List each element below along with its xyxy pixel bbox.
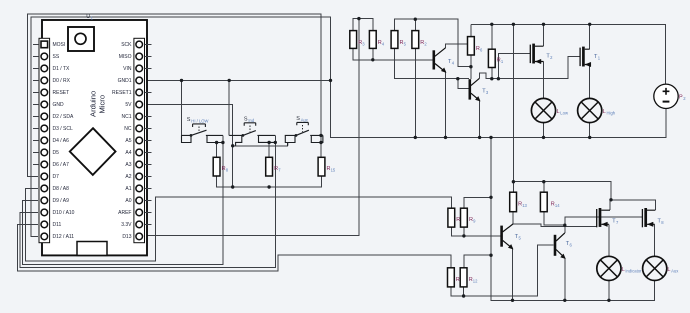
svg-text:GND: GND bbox=[53, 102, 65, 108]
wire switch common rail bbox=[233, 143, 288, 146]
wire supply riser to R13/R14 rail bbox=[513, 24, 611, 200]
crystal diamond bbox=[70, 128, 116, 175]
wire R11/R9 bottoms to T5 base bbox=[451, 227, 500, 236]
pin 1 square MOSI bbox=[41, 41, 48, 48]
svg-text:D13: D13 bbox=[122, 234, 131, 240]
wire T6 collector to T8 gate bbox=[565, 217, 643, 233]
wire L_Indicator bottom bbox=[608, 280, 610, 300]
svg-text:Arduino: Arduino bbox=[89, 91, 98, 117]
resistor R9 bbox=[461, 208, 468, 227]
resistor R12 bbox=[460, 268, 467, 287]
wire S_HI/LOW ground feed bbox=[181, 80, 183, 135]
svg-text:D1 / TX: D1 / TX bbox=[53, 66, 71, 72]
wire R5 top / R2 top to R6 bottom node bbox=[395, 19, 471, 66]
left pin circles bbox=[41, 53, 48, 240]
wire R2 bottom to GND bus bbox=[414, 48, 416, 137]
wire T3 base drop bbox=[458, 79, 469, 89]
transistor T8 P-MOSFET bbox=[642, 208, 655, 227]
wire T7 drain to T8 drain bbox=[610, 200, 655, 210]
wire T1 source to L_High bbox=[589, 65, 591, 99]
lamp L_Low bbox=[531, 98, 555, 122]
junction dot R4 bottom / T4 base rail bbox=[371, 58, 374, 61]
svg-text:A5: A5 bbox=[125, 138, 131, 144]
junction dots at switch terminals bbox=[190, 134, 193, 137]
svg-text:A2: A2 bbox=[125, 174, 131, 180]
svg-text:NC1: NC1 bbox=[121, 114, 131, 120]
resistor R2 bbox=[412, 31, 419, 49]
svg-text:D0 / RX: D0 / RX bbox=[53, 78, 71, 84]
resistor R4 bbox=[369, 31, 376, 49]
wire T2 source to L_Low bbox=[543, 62, 545, 99]
wire D9 to S_HI/LOW output (bundle line 2) bbox=[23, 135, 223, 264]
wire D8 to R11 top (bundle line 1) bbox=[26, 188, 452, 261]
svg-text:D10 / A10: D10 / A10 bbox=[53, 210, 75, 216]
svg-text:D4 / A6: D4 / A6 bbox=[53, 138, 70, 144]
wire D11 to R10 top (bundle line 4) bbox=[18, 224, 451, 271]
svg-text:D8 / A8: D8 / A8 bbox=[53, 186, 70, 192]
wire net D12/GND loop B with bottom bus and P2 negative lead bbox=[31, 17, 666, 236]
resistor R8 bbox=[213, 157, 220, 176]
svg-text:Low: Low bbox=[560, 110, 569, 115]
svg-text:A1: A1 bbox=[125, 186, 131, 192]
wire T4 collector to R6 bbox=[446, 44, 468, 48]
ICSP connector square with circle bbox=[68, 27, 94, 51]
resistor R5 bbox=[391, 31, 398, 49]
svg-text:3.3V: 3.3V bbox=[121, 222, 132, 228]
wire 5V feed bbox=[143, 104, 233, 187]
svg-text:AREF: AREF bbox=[118, 210, 131, 216]
resistor R11 bbox=[448, 208, 455, 227]
svg-text:SS: SS bbox=[53, 54, 60, 60]
wire L_Low bottom bbox=[543, 122, 545, 137]
transistor T6 NPN bbox=[555, 233, 565, 259]
left pin stubs bbox=[33, 44, 39, 164]
transistor T5 NPN bbox=[502, 224, 513, 249]
junction dot R6 bottom node bbox=[469, 65, 472, 68]
wire T8 source to L_Aux bbox=[654, 224, 656, 256]
svg-text:5V: 5V bbox=[125, 102, 132, 108]
svg-text:13: 13 bbox=[522, 203, 527, 208]
svg-text:L: L bbox=[622, 267, 625, 273]
svg-text:L: L bbox=[557, 109, 560, 115]
resistor R6 bbox=[468, 37, 475, 55]
wire R1 top riser bbox=[491, 24, 493, 49]
svg-text:High: High bbox=[607, 110, 616, 115]
wire R7 top drop bbox=[268, 142, 270, 157]
right pin stubs bbox=[145, 44, 152, 224]
right pin labels bbox=[112, 42, 132, 240]
svg-text:D12 / A11: D12 / A11 bbox=[53, 234, 75, 240]
wire D13 row to R3/R4 tee bbox=[143, 19, 359, 236]
wire T3 emitter to GND bus bbox=[479, 101, 481, 138]
transistor T3 NPN bbox=[470, 78, 480, 101]
wire R6 top to supply rail bbox=[470, 24, 472, 36]
svg-text:A0: A0 bbox=[125, 198, 131, 204]
wire resistor bottom rail R8-R7-R15 bbox=[217, 176, 322, 187]
svg-text:S: S bbox=[187, 117, 191, 123]
svg-text:MISO: MISO bbox=[119, 54, 132, 60]
svg-text:A4: A4 bbox=[125, 150, 131, 156]
svg-text:D5: D5 bbox=[53, 150, 60, 156]
junction dots on R13/R14 supply rail bbox=[512, 180, 515, 183]
wire tee to R3 and R4 tops bbox=[353, 19, 373, 31]
svg-text:S: S bbox=[244, 117, 248, 123]
wire R14 bottom to T6 collector node bbox=[544, 212, 565, 226]
svg-text:NC: NC bbox=[124, 126, 132, 132]
wire R10/R12 bottoms to T6 base bbox=[451, 245, 554, 296]
svg-text:D6 / A7: D6 / A7 bbox=[53, 162, 70, 168]
wire T1 drain riser bbox=[589, 24, 591, 49]
svg-text:VIN: VIN bbox=[123, 66, 132, 72]
svg-text:MOSI: MOSI bbox=[53, 42, 66, 48]
svg-text:L: L bbox=[667, 267, 670, 273]
left header strip bbox=[39, 38, 50, 242]
junction dots on GND bus bbox=[414, 136, 417, 139]
resistor R13 bbox=[510, 192, 517, 212]
junction dots on GND1 rail bbox=[180, 79, 183, 82]
resistor R7 bbox=[266, 157, 273, 176]
wire R5 bottom rail to T3 base area bbox=[395, 48, 470, 78]
wire S_Ind ground feed bbox=[228, 80, 230, 135]
wire R2 top riser bbox=[414, 19, 416, 30]
svg-text:Aux: Aux bbox=[301, 118, 309, 123]
wire R4 bottom riser bbox=[372, 48, 374, 59]
svg-text:RESET: RESET bbox=[53, 90, 70, 96]
left pin labels bbox=[53, 42, 75, 240]
right pin circles bbox=[136, 41, 143, 240]
svg-text:GND1: GND1 bbox=[118, 78, 132, 84]
wire T3 collector hop to T1 gate bbox=[480, 57, 580, 79]
power source P2 bbox=[654, 84, 678, 108]
wire R9 bottom riser bbox=[463, 227, 465, 236]
right header strip bbox=[134, 38, 145, 242]
svg-text:15: 15 bbox=[331, 167, 336, 172]
svg-text:A3: A3 bbox=[125, 162, 131, 168]
svg-text:D7: D7 bbox=[53, 174, 60, 180]
svg-text:Ind: Ind bbox=[248, 118, 254, 123]
Arduino Micro U1 board outline bbox=[39, 20, 147, 255]
svg-text:D2 / SDA: D2 / SDA bbox=[53, 114, 75, 120]
junction dots on +supply top rail bbox=[490, 23, 493, 26]
wire R6 bottom to T3 collector bbox=[470, 55, 472, 79]
USB connector rectangle bbox=[77, 242, 107, 256]
svg-text:Micro: Micro bbox=[98, 95, 107, 114]
wire GND1 rail bbox=[143, 79, 331, 81]
junction dots on lower ground bus bbox=[511, 299, 514, 302]
svg-text:RESET1: RESET1 bbox=[112, 90, 132, 96]
transistor T7 P-MOSFET bbox=[597, 208, 610, 227]
junction dot R12 bottom bbox=[462, 294, 465, 297]
wire T2 gate bbox=[498, 54, 530, 79]
svg-text:D9 / A9: D9 / A9 bbox=[53, 198, 70, 204]
wire R13 bottom / T5 collector to T7 gate bbox=[513, 212, 597, 227]
junction dots on resistor bottom rail bbox=[231, 185, 234, 188]
resistor R3 bbox=[350, 31, 357, 49]
wire R14 top drop bbox=[543, 182, 545, 193]
svg-text:L: L bbox=[603, 109, 606, 115]
wire R12 top to ground riser bbox=[464, 255, 491, 268]
junction dots on ground riser bbox=[489, 196, 492, 199]
svg-text:D11: D11 bbox=[53, 222, 62, 228]
wire ground riser and lower ground bus bbox=[491, 137, 655, 300]
wire R3/R4 bottoms to T4 base bbox=[353, 48, 432, 59]
wire T6 emitter drop bbox=[564, 258, 566, 300]
wire T7 source to L_Indicator bbox=[608, 224, 610, 256]
wire net D7 to S_Aux (top loop A) bbox=[28, 14, 322, 176]
resistor R10 bbox=[448, 268, 455, 287]
junction dots on T3 rail bbox=[456, 77, 459, 80]
junction dot D13 tee bbox=[357, 17, 360, 20]
wire T2 drain riser bbox=[543, 24, 545, 46]
transistor T4 NPN bbox=[434, 48, 446, 73]
svg-text:Aux: Aux bbox=[671, 268, 679, 273]
switch S_HI/LOW bbox=[182, 124, 223, 143]
svg-text:SCK: SCK bbox=[121, 42, 132, 48]
transistor T2 P-MOSFET bbox=[530, 44, 543, 64]
svg-text:S: S bbox=[296, 116, 300, 122]
svg-text:14: 14 bbox=[555, 203, 560, 208]
resistor R15 bbox=[318, 157, 325, 176]
transistor T1 P-MOSFET bbox=[580, 47, 591, 67]
junction dot R2 top bbox=[414, 18, 417, 21]
svg-text:12: 12 bbox=[473, 278, 478, 283]
svg-text:Indicator: Indicator bbox=[625, 268, 642, 273]
lamp L_High bbox=[578, 98, 602, 122]
wire R9 top to ground riser bbox=[464, 197, 491, 208]
wire R8 top drop bbox=[216, 143, 218, 158]
wire R12 bottom riser bbox=[463, 287, 465, 296]
svg-text:D3 / SCL: D3 / SCL bbox=[53, 126, 74, 132]
wire T4 emitter to GND bus bbox=[445, 72, 447, 137]
wire R13 top drop bbox=[512, 182, 514, 193]
wire R1 bottom riser bbox=[491, 68, 493, 79]
wire L_High bottom bbox=[589, 122, 591, 137]
switch S_Ind bbox=[229, 123, 275, 146]
junction dot R9 bottom bbox=[462, 234, 465, 237]
lamp L_Aux bbox=[643, 256, 667, 280]
resistor R14 bbox=[540, 192, 547, 212]
junction dots on switch common rail bbox=[231, 144, 234, 147]
wire T5 emitter drop bbox=[512, 249, 514, 301]
lamp L_Indicator bbox=[597, 256, 621, 280]
svg-text:HI / LOW: HI / LOW bbox=[191, 119, 208, 124]
wire +supply top rail with P2 positive lead bbox=[471, 24, 666, 84]
resistor R1 bbox=[488, 49, 495, 67]
wire D10 to S_Ind output (bundle line 3) bbox=[20, 135, 275, 267]
junction dot R14 bottom / T6 collector bbox=[563, 224, 566, 227]
switch S_Aux bbox=[285, 122, 323, 145]
